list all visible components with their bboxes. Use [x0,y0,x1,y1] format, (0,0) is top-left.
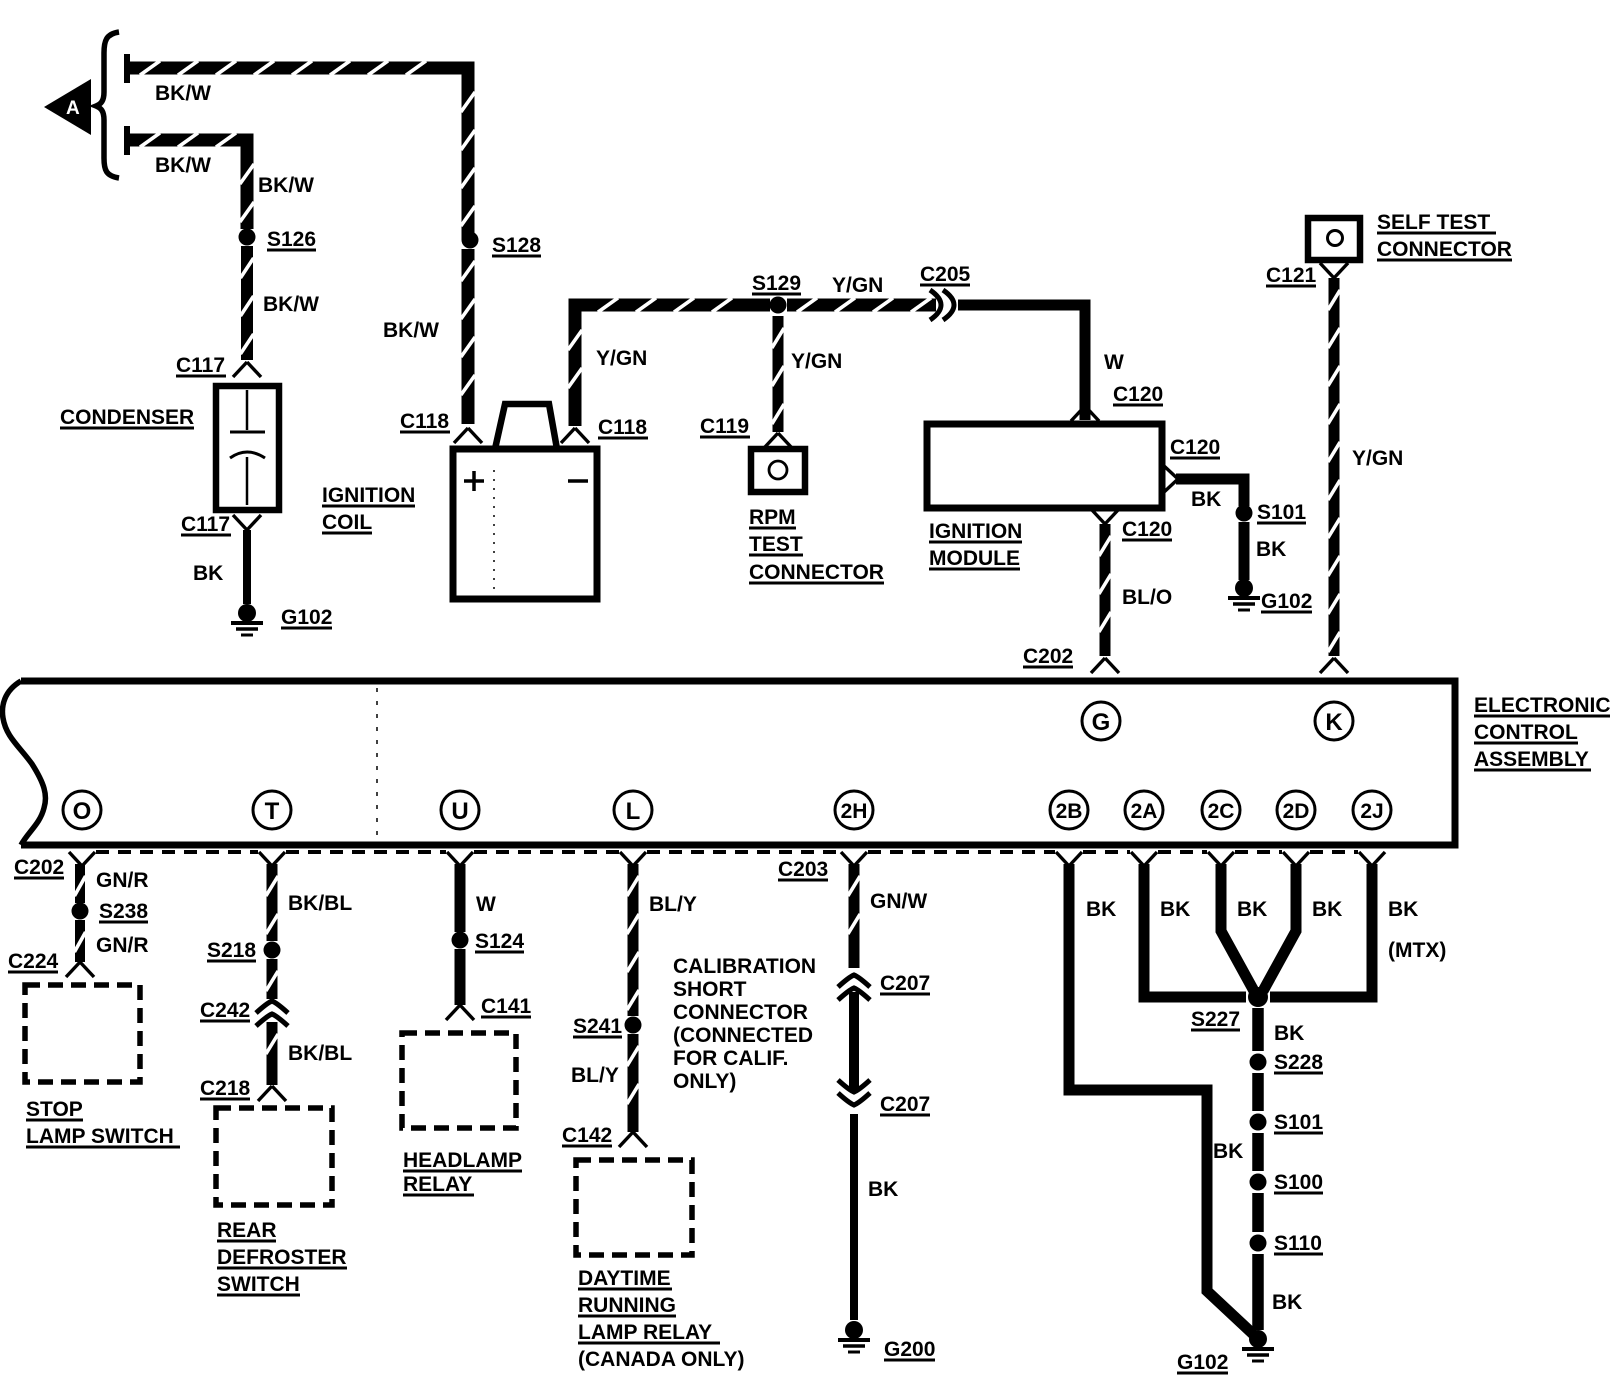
label BK/BL 1 [288,892,352,915]
svg-text:BK: BK [1274,1022,1304,1045]
label IGNITION MODULE [929,520,1022,570]
label BK 2H [868,1178,898,1201]
svg-text:BK: BK [1086,898,1116,921]
wire GN/W from pin 2H [848,864,860,968]
connector C121 [1266,263,1348,287]
splice S124 [452,932,469,949]
svg-text:C207: C207 [880,972,930,995]
wire W S124 to C141 [455,949,466,1005]
svg-text:TEST: TEST [749,533,803,556]
label Y/GN S129-C205 [832,274,883,297]
svg-text:CALIBRATION: CALIBRATION [673,955,816,978]
svg-text:FOR CALIF.: FOR CALIF. [673,1047,789,1070]
svg-text:CONTROL: CONTROL [1474,721,1578,744]
label BK 2C [1237,898,1267,921]
self test connector body [1308,218,1360,260]
label DAYTIME RUNNING LAMP RELAY [578,1267,744,1371]
svg-text:BK/W: BK/W [258,174,314,197]
label SELF TEST CONNECTOR [1377,211,1512,261]
label BK below S101 [1256,538,1286,561]
label BL/Y 1 [649,893,697,916]
svg-text:C242: C242 [200,999,250,1022]
label S238 [99,900,148,923]
connector C120 right [1163,436,1220,493]
wire Y/GN from S129 to C205 [787,298,936,312]
svg-text:C120: C120 [1170,436,1220,459]
label BK/W wire2 [155,154,211,177]
svg-text:A: A [66,98,80,119]
label BK module right [1191,488,1221,511]
svg-text:S124: S124 [475,930,524,953]
splice S100 [1250,1174,1267,1191]
svg-text:BK: BK [1312,898,1342,921]
label W col U [476,893,496,916]
svg-text:G: G [1092,709,1111,736]
svg-text:BK: BK [868,1178,898,1201]
label RPM TEST CONNECTOR [749,506,884,584]
wire BL/Y from pin L [627,864,639,1016]
wire BK/W from arrow A to S126 (second horizontal) [127,126,254,229]
wire W from pin U [455,864,466,932]
splice S238 [72,903,89,920]
svg-text:BK: BK [1237,898,1267,921]
label Y/GN coil [596,347,647,370]
svg-text:C202: C202 [14,856,64,879]
label S129 [752,272,801,295]
svg-text:(CONNECTED: (CONNECTED [673,1024,813,1047]
svg-text:S110: S110 [1274,1232,1322,1255]
svg-text:C207: C207 [880,1093,930,1116]
connector C141 [446,995,532,1020]
svg-text:BK: BK [193,562,223,585]
splice S218 [264,942,281,959]
svg-text:C202: C202 [1023,645,1073,668]
svg-text:G102: G102 [1177,1351,1228,1374]
svg-text:2J: 2J [1360,800,1383,823]
connector C119 [700,415,792,448]
connector C218 [200,1077,286,1101]
svg-text:C224: C224 [8,950,59,973]
wire BK/W from arrow A to S128 (top horizontal) [127,54,475,240]
ECA pins G and K [1082,702,1353,740]
label S128 [492,234,541,257]
label GN/R 2 [96,934,149,957]
splice S101 right of module [1236,505,1253,522]
wire BL/O module to ECA [1099,524,1111,656]
label BK 2D [1312,898,1342,921]
svg-text:S101: S101 [1257,501,1306,524]
ground G102 left [231,604,263,635]
svg-text:CONNECTOR: CONNECTOR [1377,238,1512,261]
wire BK S110 to G102 [1252,1254,1264,1330]
svg-text:2A: 2A [1131,800,1158,823]
svg-text:BK: BK [1272,1291,1302,1314]
connector C118 left [400,410,482,443]
svg-text:BL/Y: BL/Y [649,893,697,916]
svg-text:SELF TEST: SELF TEST [1377,211,1490,234]
label BL/Y 2 [571,1064,619,1087]
wire GN/R to C224 [74,920,85,962]
svg-text:BK: BK [1256,538,1286,561]
ground G102 right of module [1228,579,1260,610]
wire BK S101 to G102 [1239,522,1250,580]
splice S227 [1248,987,1268,1007]
label G102 left [281,606,332,629]
ground G102 bottom right [1242,1330,1274,1361]
svg-text:BK/W: BK/W [155,82,211,105]
svg-text:GN/R: GN/R [96,869,149,892]
label IGNITION COIL [322,484,415,534]
ignition coil body [453,404,597,599]
svg-text:REAR: REAR [217,1219,277,1242]
svg-text:S227: S227 [1191,1008,1240,1031]
label S101 module [1257,501,1306,524]
svg-text:BK: BK [1213,1140,1243,1163]
label BK/W above C117 [263,293,319,316]
wire BK condenser to ground [243,530,251,604]
wire W from C205 to ignition module [958,305,1085,420]
svg-text:Y/GN: Y/GN [596,347,647,370]
wire BK module right [1176,479,1244,506]
connector C202 into ECA (module wire) [1023,645,1119,673]
svg-text:S126: S126 [267,228,316,251]
ignition module body [927,424,1162,508]
wire BK S101 to S100 [1252,1133,1264,1171]
svg-text:COIL: COIL [322,511,372,534]
label S110 [1274,1232,1323,1255]
label S241 [573,1015,622,1038]
connector C117 top [176,354,261,377]
svg-text:LAMP RELAY: LAMP RELAY [578,1321,712,1344]
connector C117 bottom [181,513,261,536]
svg-text:CONDENSER: CONDENSER [60,406,194,429]
svg-text:2C: 2C [1208,800,1235,823]
svg-text:IGNITION: IGNITION [322,484,415,507]
connector C224 [8,950,94,977]
label S100 [1274,1171,1323,1194]
svg-text:C218: C218 [200,1077,251,1100]
svg-text:G102: G102 [1261,590,1312,613]
label ELECTRONIC CONTROL ASSEMBLY [1474,694,1611,771]
svg-text:C120: C120 [1122,518,1172,541]
brace for arrow A [96,32,119,178]
label BK below S227 [1274,1022,1304,1045]
svg-text:S100: S100 [1274,1171,1323,1194]
svg-text:BK/BL: BK/BL [288,892,352,915]
label S126 [267,228,316,251]
svg-text:G200: G200 [884,1338,935,1361]
label S124 [475,930,524,953]
label REAR DEFROSTER SWITCH [217,1219,347,1296]
svg-text:CONNECTOR: CONNECTOR [673,1001,808,1024]
svg-text:BK/W: BK/W [263,293,319,316]
wire BK pin 2J to S227 [1270,864,1372,997]
wire BK pin 2A to S227 [1144,864,1246,997]
svg-text:U: U [451,798,468,825]
svg-text:MODULE: MODULE [929,547,1020,570]
label Y/GN RPM [791,350,842,373]
label BK 2A [1160,898,1190,921]
svg-text:Y/GN: Y/GN [832,274,883,297]
headlamp relay box [402,1033,516,1128]
svg-text:BK: BK [1160,898,1190,921]
label MTX [1388,939,1446,962]
splice S241 [625,1017,642,1034]
svg-text:S218: S218 [207,939,256,962]
svg-text:S228: S228 [1274,1051,1323,1074]
wire BK S100 to S110 [1252,1193,1264,1232]
wire BK S228 to S101 [1252,1073,1264,1111]
label CONDENSER [60,406,194,429]
label BK 2B [1086,898,1116,921]
label CALIBRATION SHORT CONNECTOR [673,955,816,1093]
svg-text:IGNITION: IGNITION [929,520,1022,543]
label W [1104,351,1124,374]
wire BK pin 2D to S227 [1263,864,1296,991]
svg-text:CONNECTOR: CONNECTOR [749,561,884,584]
svg-text:G102: G102 [281,606,332,629]
splice S129 [770,297,787,314]
funnel C121 wire into ECA [1320,658,1348,673]
svg-text:W: W [476,893,496,916]
wire BK/BL C242 to C218 [266,1022,278,1085]
label G102 bottom [1177,1351,1228,1374]
svg-text:C142: C142 [562,1124,612,1147]
svg-text:ASSEMBLY: ASSEMBLY [1474,748,1589,771]
daytime running lamp relay box [576,1160,692,1255]
label C203 [778,858,828,881]
svg-text:C118: C118 [400,410,449,433]
wire Y/GN self test to ECA [1328,278,1340,656]
svg-text:C141: C141 [481,995,532,1018]
connector C205 [920,263,971,320]
splice S126 [239,229,256,246]
svg-text:W: W [1104,351,1124,374]
label G200 [884,1338,935,1361]
svg-text:GN/R: GN/R [96,934,149,957]
label S218 [207,939,256,962]
wire BK to G200 [850,1114,858,1320]
label BK condenser [193,562,223,585]
svg-text:S238: S238 [99,900,148,923]
wire BK/BL S218 to C242 [266,959,278,999]
svg-text:LAMP SWITCH: LAMP SWITCH [26,1125,174,1148]
connector C120 top [1071,383,1163,421]
connector C120 bottom [1091,509,1172,541]
svg-text:BL/Y: BL/Y [571,1064,619,1087]
svg-text:L: L [626,798,641,825]
label BK 2B lower [1213,1140,1243,1163]
svg-text:BK: BK [1191,488,1221,511]
svg-text:C118: C118 [598,416,647,439]
svg-text:2B: 2B [1056,800,1083,823]
svg-text:SWITCH: SWITCH [217,1273,300,1296]
label BK above G102 [1272,1291,1302,1314]
stop lamp switch box [25,985,140,1082]
wire BK pin 2C to S227 [1221,864,1254,991]
label Y/GN self test [1352,447,1403,470]
svg-text:S129: S129 [752,272,801,295]
svg-text:BL/O: BL/O [1122,586,1172,609]
wire BL/Y S241 to C142 [627,1034,639,1132]
ECA bottom pins [63,791,1391,829]
svg-text:(CANADA ONLY): (CANADA ONLY) [578,1348,744,1371]
svg-text:BK/W: BK/W [155,154,211,177]
label S101 chain [1274,1111,1323,1134]
connector C142 [562,1124,647,1147]
connector C207 lower [838,1080,930,1116]
svg-text:2H: 2H [841,800,868,823]
wire BK S227 to S228 [1252,1008,1264,1051]
svg-text:Y/GN: Y/GN [1352,447,1403,470]
label BL/O [1122,586,1172,609]
svg-text:RUNNING: RUNNING [578,1294,676,1317]
label S227 [1191,1008,1240,1031]
wire Y/GN from coil to S129 [568,298,770,426]
splice S228 [1250,1054,1267,1071]
splice S110 [1250,1235,1267,1252]
svg-text:C120: C120 [1113,383,1163,406]
svg-text:(MTX): (MTX) [1388,939,1446,962]
label BK/W wire1 [155,82,211,105]
svg-text:C205: C205 [920,263,971,286]
svg-text:C119: C119 [700,415,749,438]
splice S101 chain [1250,1114,1267,1131]
connector C242 [200,999,288,1026]
svg-text:GN/W: GN/W [870,890,927,913]
svg-text:T: T [265,798,280,825]
svg-text:S101: S101 [1274,1111,1323,1134]
svg-text:C203: C203 [778,858,828,881]
svg-text:ELECTRONIC: ELECTRONIC [1474,694,1611,717]
label GN/W [870,890,927,913]
label BK/W right of corner [258,174,314,197]
svg-text:O: O [73,798,92,825]
wire BK/W from S128 to C118 [461,249,475,424]
svg-text:BK/W: BK/W [383,319,439,342]
label C202 left [14,856,64,879]
label BK/BL 2 [288,1042,352,1065]
label G102 module [1261,590,1312,613]
connector C207 upper [838,972,930,1000]
connector C118 right [561,416,648,443]
svg-text:2D: 2D [1283,800,1310,823]
svg-text:DEFROSTER: DEFROSTER [217,1246,347,1269]
rear defroster switch box [216,1108,332,1205]
wire 2H middle [849,992,859,1090]
svg-text:SHORT: SHORT [673,978,747,1001]
condenser body [216,386,279,510]
svg-text:RELAY: RELAY [403,1173,472,1196]
wire BK/BL from pin T [266,864,278,941]
wire BK pin 2B to G102 [1069,864,1253,1334]
svg-text:RPM: RPM [749,506,796,529]
wire GN/R from pin O [74,864,85,903]
label STOP LAMP SWITCH [26,1098,180,1148]
wire BK/W from S126 to C117 [240,246,253,360]
svg-text:STOP: STOP [26,1098,83,1121]
ECA bottom connector funnels and dashed harness line [69,852,1385,866]
svg-text:S241: S241 [573,1015,622,1038]
svg-text:ONLY): ONLY) [673,1070,736,1093]
label GN/R 1 [96,869,149,892]
svg-text:Y/GN: Y/GN [791,350,842,373]
svg-text:C117: C117 [176,354,225,377]
electronic control assembly box [2,681,1455,845]
svg-text:C117: C117 [181,513,230,536]
svg-text:BK: BK [1388,898,1418,921]
wire Y/GN S129 to RPM test connector [772,316,784,432]
svg-text:K: K [1325,709,1343,736]
ground G200 [838,1321,870,1352]
label BK/W left of S128 wire [383,319,439,342]
off-page arrow A [44,79,91,135]
label S228 [1274,1051,1323,1074]
splice S128 [462,232,479,249]
svg-text:C121: C121 [1266,264,1317,287]
svg-text:DAYTIME: DAYTIME [578,1267,671,1290]
svg-text:S128: S128 [492,234,541,257]
label HEADLAMP RELAY [403,1149,522,1196]
label BK 2J [1388,898,1418,921]
RPM test connector body [751,449,805,492]
svg-text:BK/BL: BK/BL [288,1042,352,1065]
svg-text:HEADLAMP: HEADLAMP [403,1149,522,1172]
